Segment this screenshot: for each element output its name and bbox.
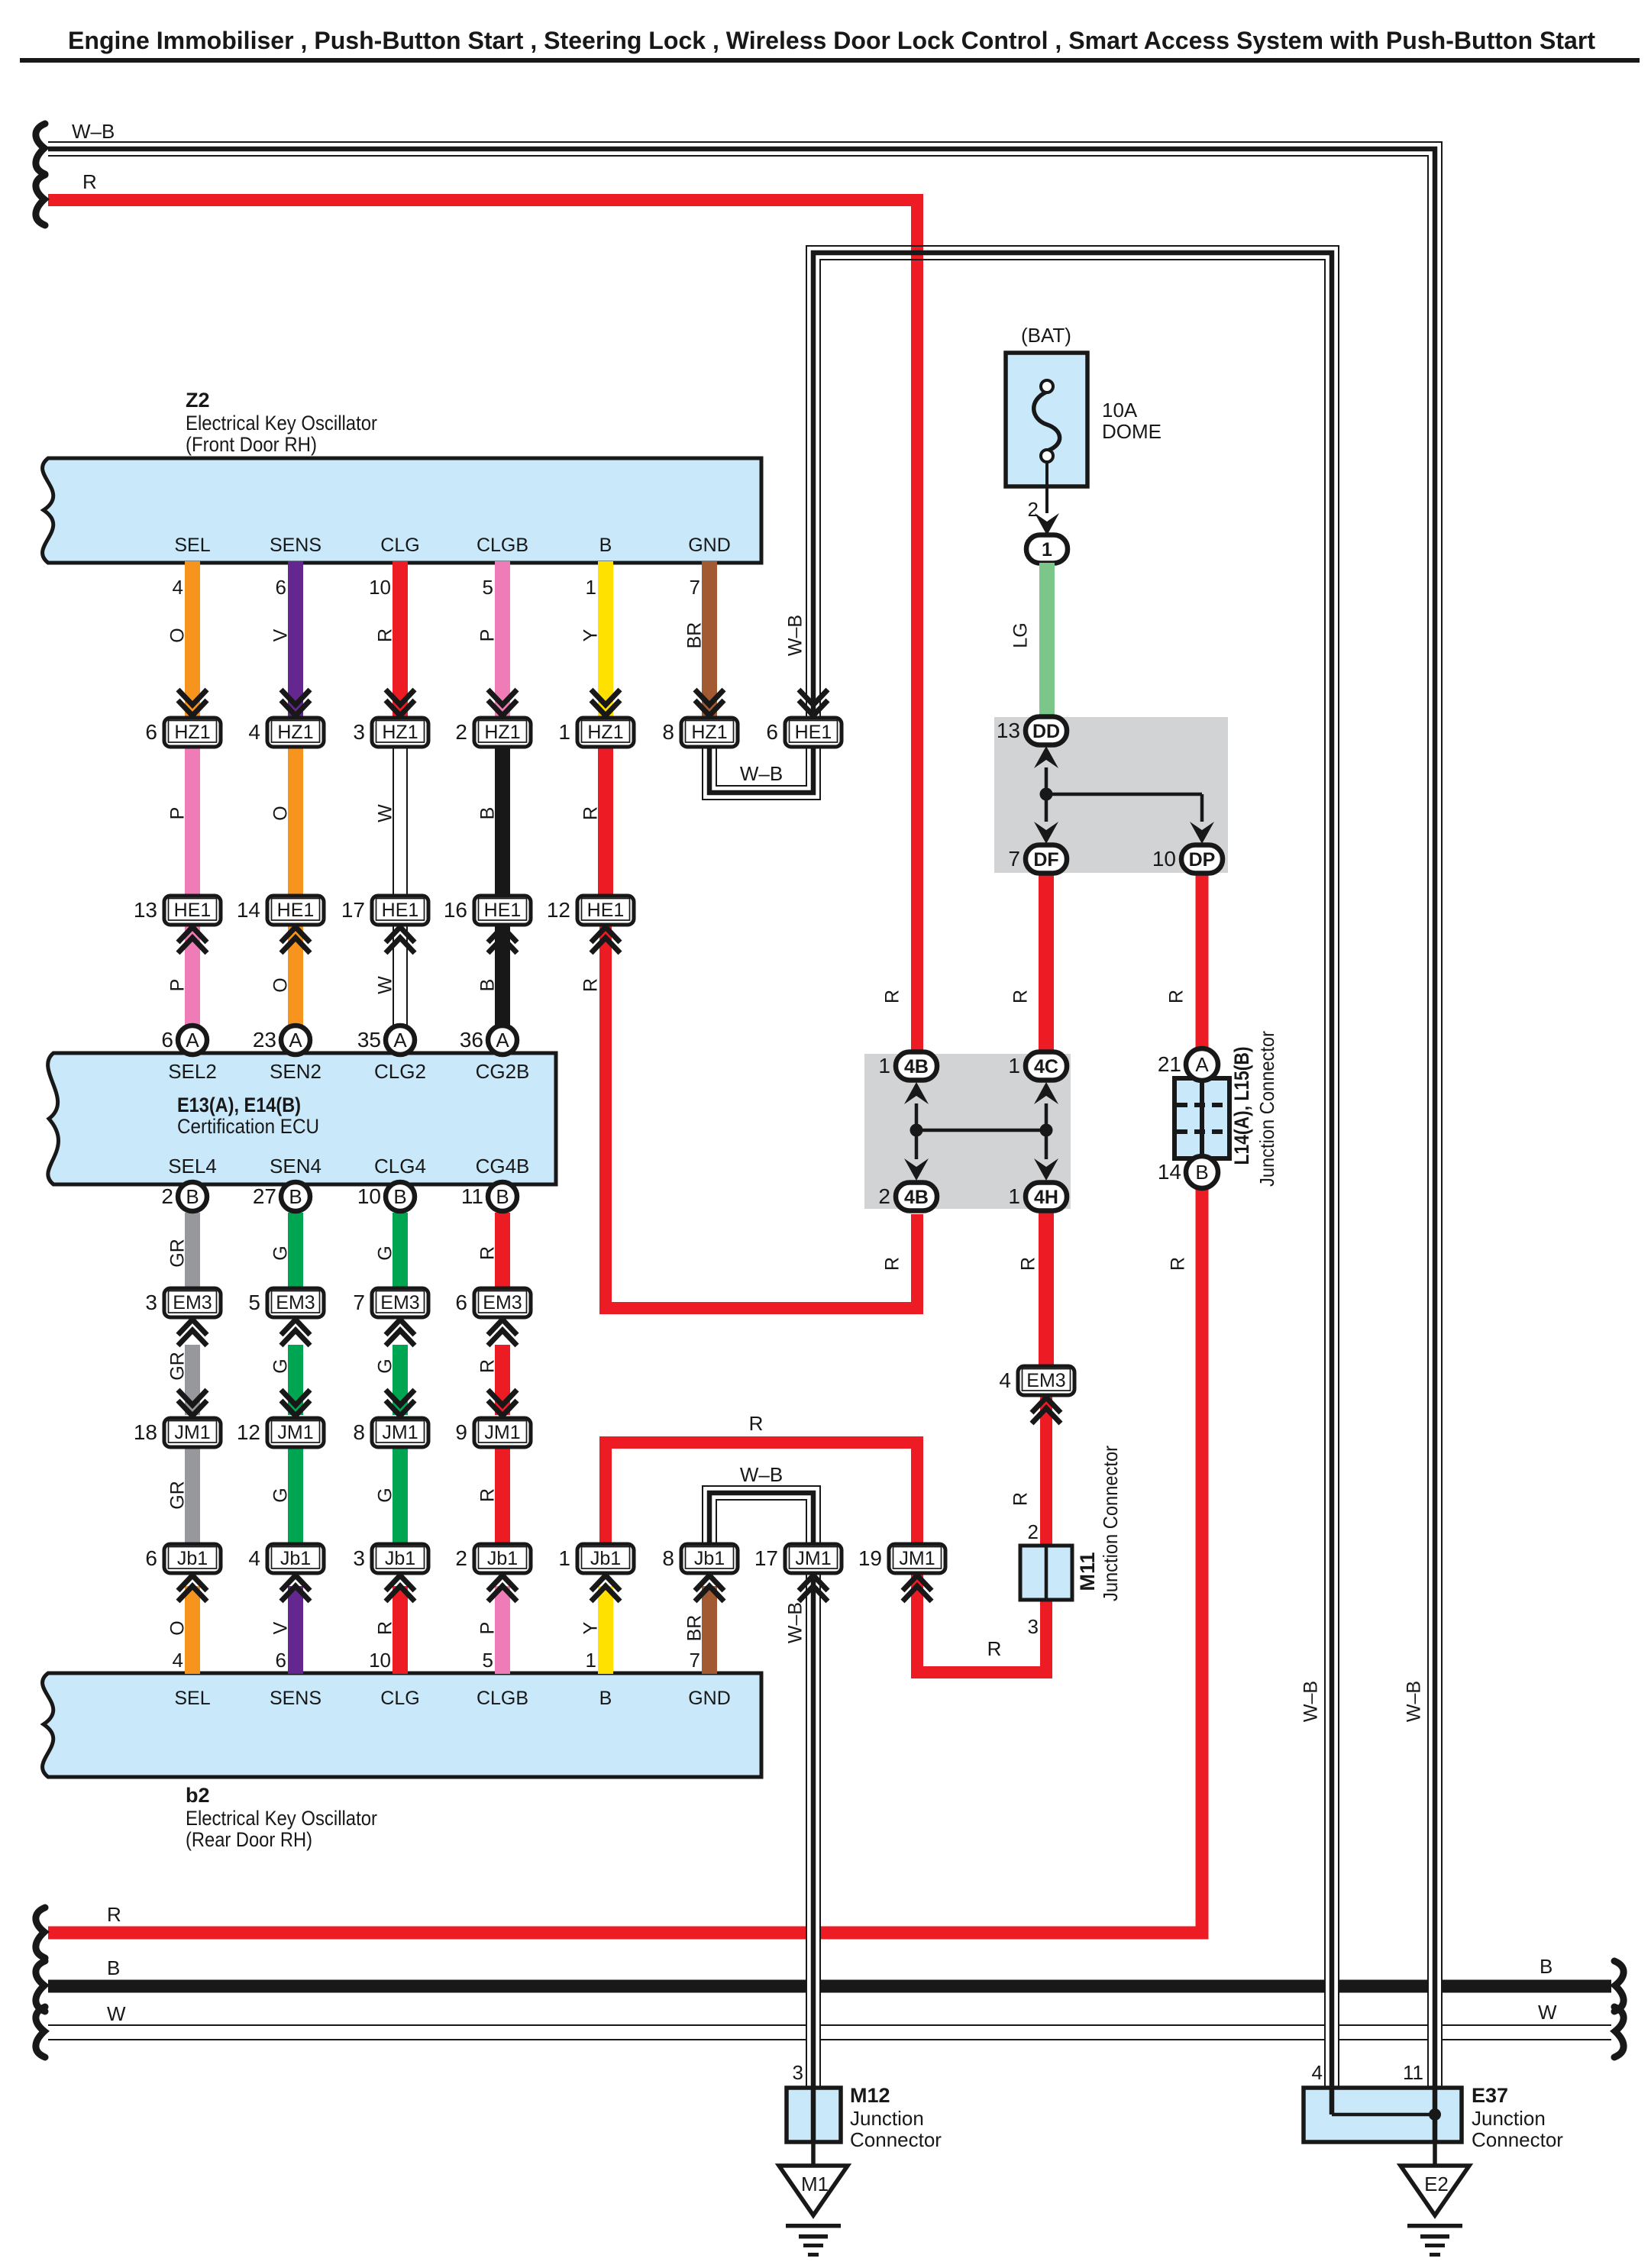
wire V from Jb1 to b2 SENS <box>288 1586 303 1674</box>
wire G from JM1 to Jb1 <box>393 1447 408 1543</box>
svg-text:4: 4 <box>1312 2061 1323 2084</box>
svg-text:4: 4 <box>173 1649 183 1672</box>
wire Y from Z2 B to HZ1 <box>598 561 613 716</box>
svg-text:6: 6 <box>455 1291 467 1314</box>
svg-text:CLG2: CLG2 <box>374 1060 426 1083</box>
wire R from Jb1 pin 1 to JM1 pin 19 <box>606 1443 917 1544</box>
connector Jb1 pin 1 <box>558 1544 634 1573</box>
svg-text:W–B: W–B <box>740 762 783 785</box>
svg-text:LG: LG <box>1010 622 1032 648</box>
svg-text:1: 1 <box>586 576 596 599</box>
svg-text:B: B <box>186 1185 199 1208</box>
wire O from HZ1 to HE1 <box>288 747 303 894</box>
arrow into 4B lower <box>904 1158 929 1181</box>
svg-text:B: B <box>393 1185 406 1208</box>
svg-text:SEL4: SEL4 <box>168 1155 217 1178</box>
wire BR from Jb1 to b2 GND <box>702 1586 717 1674</box>
svg-text:E13(A), E14(B): E13(A), E14(B) <box>177 1094 301 1116</box>
svg-text:13: 13 <box>134 898 157 922</box>
connector Jb1 pin 4 <box>248 1544 324 1573</box>
wire R from 4H to EM3 pin 4 <box>1039 1209 1054 1371</box>
svg-text:1: 1 <box>558 720 570 744</box>
svg-text:R: R <box>882 990 903 1003</box>
svg-text:CLGB: CLGB <box>477 1688 528 1709</box>
connector 1 oval <box>1026 535 1068 564</box>
wire G from ECU to EM3 <box>393 1213 408 1291</box>
svg-text:HE1: HE1 <box>382 900 419 921</box>
svg-text:2: 2 <box>455 1546 467 1570</box>
wire W from HE1 to ECU pin <box>393 925 407 1026</box>
svg-text:7: 7 <box>690 576 700 599</box>
svg-text:Junction: Junction <box>1472 2107 1546 2130</box>
svg-text:A: A <box>186 1029 199 1052</box>
svg-text:6: 6 <box>145 720 157 744</box>
svg-text:6: 6 <box>766 720 778 744</box>
svg-text:27: 27 <box>253 1184 276 1208</box>
svg-text:11: 11 <box>1403 2061 1423 2084</box>
wire B from HE1 to ECU pin <box>495 925 510 1026</box>
svg-text:R: R <box>477 1246 499 1260</box>
svg-text:CLG: CLG <box>380 1688 419 1709</box>
ECU pin 23 circle A <box>253 1026 310 1055</box>
svg-text:Junction: Junction <box>850 2107 924 2130</box>
svg-text:EM3: EM3 <box>173 1292 212 1313</box>
connector DD <box>997 717 1067 745</box>
connector EM3 pin 6 <box>455 1288 531 1317</box>
wire R from 4B to HE1 pin 12 column <box>606 925 917 1308</box>
svg-text:1: 1 <box>1008 1184 1020 1208</box>
svg-text:JM1: JM1 <box>795 1548 831 1569</box>
svg-text:2: 2 <box>161 1184 173 1208</box>
svg-text:10A: 10A <box>1102 399 1138 422</box>
svg-text:CLGB: CLGB <box>477 535 528 556</box>
svg-text:3: 3 <box>793 2061 803 2084</box>
svg-text:4: 4 <box>248 1546 260 1570</box>
shaded relay block DD/DF/DP <box>994 717 1228 873</box>
arrow into connector 1 <box>1035 513 1059 535</box>
svg-text:EM3: EM3 <box>1026 1370 1065 1391</box>
svg-text:6: 6 <box>276 1649 286 1672</box>
svg-text:A: A <box>393 1029 407 1052</box>
arrow into DF <box>1034 822 1058 844</box>
svg-text:Jb1: Jb1 <box>487 1548 518 1569</box>
svg-text:HZ1: HZ1 <box>382 722 418 743</box>
fuse element symbol <box>1034 392 1060 451</box>
svg-text:6: 6 <box>276 576 286 599</box>
svg-text:L14(A), L15(B): L14(A), L15(B) <box>1230 1047 1253 1165</box>
svg-text:B: B <box>1195 1161 1208 1184</box>
svg-text:V: V <box>270 1621 292 1634</box>
svg-text:5: 5 <box>483 576 493 599</box>
svg-text:4: 4 <box>248 720 260 744</box>
svg-text:R: R <box>375 628 396 642</box>
svg-text:HE1: HE1 <box>587 900 625 921</box>
svg-text:8: 8 <box>353 1420 365 1444</box>
svg-text:7: 7 <box>690 1649 700 1672</box>
connector HE1 pin 16 <box>444 896 531 925</box>
svg-text:E2: E2 <box>1424 2173 1449 2195</box>
connector JM1 pin 19 <box>858 1544 945 1573</box>
svg-text:W–B: W–B <box>1404 1681 1425 1722</box>
svg-text:(BAT): (BAT) <box>1021 324 1071 347</box>
svg-text:Engine Immobiliser , Push-Butt: Engine Immobiliser , Push-Button Start ,… <box>68 27 1595 54</box>
svg-text:R: R <box>987 1637 1002 1660</box>
connector HE1 pin 17 <box>341 896 428 925</box>
svg-text:R: R <box>882 1257 903 1271</box>
svg-text:W–B: W–B <box>1300 1681 1322 1722</box>
wire R main feed from page left to connector 4B <box>48 200 917 1061</box>
svg-text:R: R <box>82 170 97 193</box>
connector Jb1 pin 6 <box>145 1544 221 1573</box>
svg-text:JM1: JM1 <box>382 1422 418 1443</box>
connector 4H <box>1008 1183 1067 1211</box>
svg-text:Certification ECU: Certification ECU <box>177 1115 319 1138</box>
svg-text:CLG4: CLG4 <box>374 1155 426 1178</box>
svg-text:b2: b2 <box>186 1784 210 1807</box>
wire W-B second rail: HE1 pin 6 up, across, down to E37 pin 4 <box>806 246 1339 1924</box>
wire O from Jb1 to b2 SEL <box>185 1586 200 1674</box>
wire R from Z2 CLG to HZ1 <box>393 561 408 716</box>
svg-text:SEN4: SEN4 <box>270 1155 321 1178</box>
svg-text:W: W <box>1538 2001 1557 2024</box>
svg-text:7: 7 <box>1008 847 1020 871</box>
svg-text:10: 10 <box>1152 847 1176 871</box>
internal wires 4B/4C to 4B/4H <box>915 1103 919 1159</box>
svg-text:G: G <box>270 1245 292 1260</box>
svg-text:M1: M1 <box>801 2173 829 2195</box>
connector HZ1 pin 4 <box>281 690 310 716</box>
connector EM3 pin 3 <box>145 1288 221 1317</box>
wire M12 to ground M1 <box>811 2142 816 2167</box>
svg-text:18: 18 <box>134 1420 157 1444</box>
ECU pin 36 circle A <box>460 1026 517 1055</box>
wire O from HE1 to ECU pin <box>288 925 303 1026</box>
connector HE1 pin 12 <box>547 896 634 925</box>
wire P from HE1 to ECU pin <box>185 925 200 1026</box>
wire GR from ECU to EM3 <box>185 1213 200 1291</box>
svg-text:10: 10 <box>357 1184 381 1208</box>
wire G from ECU to EM3 <box>288 1213 303 1291</box>
svg-text:3: 3 <box>353 720 365 744</box>
svg-text:5: 5 <box>248 1291 260 1314</box>
svg-text:HE1: HE1 <box>484 900 522 921</box>
connector JM1 pin 18 <box>178 1390 207 1416</box>
wire W-B from JM1 pin 17 down to M12 <box>806 1572 821 2088</box>
connector HZ1 pin 6 <box>178 690 207 716</box>
connector HZ1 pin 3 <box>386 690 415 716</box>
svg-text:(Rear Door RH): (Rear Door RH) <box>186 1828 312 1851</box>
svg-text:B: B <box>496 1185 509 1208</box>
connector Jb1 pin 3 <box>353 1544 428 1573</box>
wire P from HZ1 to HE1 <box>185 747 200 894</box>
svg-text:B: B <box>1540 1955 1552 1978</box>
wire GR from EM3 to JM1 <box>185 1345 200 1415</box>
wire W-B loop Jb1 pin 8 to JM1 pin 17 <box>703 1486 820 1544</box>
oscillator Z2 box <box>43 458 761 563</box>
svg-text:(Front Door RH): (Front Door RH) <box>186 433 317 456</box>
svg-text:Connector: Connector <box>850 2128 942 2151</box>
svg-text:R: R <box>580 806 602 820</box>
connector HE1 pin 13 <box>134 896 221 925</box>
svg-text:BR: BR <box>684 622 706 649</box>
svg-text:M12: M12 <box>850 2084 890 2107</box>
svg-text:HZ1: HZ1 <box>484 722 520 743</box>
connector Jb1 pin 2 <box>455 1544 531 1573</box>
svg-text:HE1: HE1 <box>795 722 832 743</box>
svg-text:HZ1: HZ1 <box>691 722 727 743</box>
svg-text:HZ1: HZ1 <box>174 722 210 743</box>
connector HZ1 pin 1 <box>591 690 620 716</box>
internal wire DD to DF/DP <box>1045 767 1048 822</box>
ECU pin 6 circle A <box>161 1026 207 1055</box>
svg-text:R: R <box>1010 1492 1032 1506</box>
svg-text:W–B: W–B <box>740 1463 783 1486</box>
svg-text:1: 1 <box>878 1054 890 1077</box>
svg-text:P: P <box>477 629 499 642</box>
svg-text:O: O <box>167 1620 189 1635</box>
page-continuation braces <box>36 124 45 174</box>
connector HE1 pin 14 <box>237 896 324 925</box>
svg-text:B: B <box>477 979 499 992</box>
junction connector M12 box <box>787 2088 841 2142</box>
connector EM3 pin 7 <box>353 1288 428 1317</box>
svg-text:8: 8 <box>662 1546 674 1570</box>
svg-text:17: 17 <box>341 898 365 922</box>
connector JM1 pin 12 <box>281 1390 310 1416</box>
certification ECU E13/E14 box <box>48 1053 556 1184</box>
svg-text:8: 8 <box>662 720 674 744</box>
svg-text:R: R <box>1166 990 1187 1003</box>
svg-text:12: 12 <box>547 898 570 922</box>
svg-text:7: 7 <box>353 1291 365 1314</box>
connector JM1 pin 9 <box>488 1390 517 1416</box>
wire R from JM1 to Jb1 <box>495 1447 510 1543</box>
svg-text:GR: GR <box>167 1352 189 1381</box>
svg-text:GND: GND <box>688 535 731 556</box>
svg-text:GR: GR <box>167 1481 189 1510</box>
connector HE1 pin 6 <box>799 690 828 716</box>
svg-text:M11: M11 <box>1076 1552 1099 1591</box>
svg-text:23: 23 <box>253 1028 276 1052</box>
svg-text:DD: DD <box>1032 721 1060 742</box>
svg-text:9: 9 <box>455 1420 467 1444</box>
wire LG from fuse connector to DD <box>1039 563 1055 724</box>
svg-text:JM1: JM1 <box>174 1422 210 1443</box>
svg-text:R: R <box>580 978 602 992</box>
svg-text:Y: Y <box>580 1621 602 1634</box>
svg-text:Jb1: Jb1 <box>280 1548 311 1569</box>
svg-text:Jb1: Jb1 <box>177 1548 208 1569</box>
wire R from Jb1 to b2 CLG <box>393 1586 408 1674</box>
svg-text:B: B <box>599 535 612 556</box>
svg-text:W: W <box>107 2002 126 2025</box>
svg-text:E37: E37 <box>1472 2084 1508 2107</box>
wire P from Jb1 to b2 CLGB <box>495 1586 510 1674</box>
svg-text:Electrical Key Oscillator: Electrical Key Oscillator <box>186 412 377 435</box>
svg-text:13: 13 <box>997 719 1020 742</box>
wire B from HZ1 to HE1 <box>495 747 510 894</box>
svg-text:CG2B: CG2B <box>476 1060 530 1083</box>
svg-text:R: R <box>749 1412 764 1435</box>
svg-text:SEL2: SEL2 <box>168 1060 217 1083</box>
svg-text:A: A <box>496 1029 509 1052</box>
wire W-B top rail to E37 pin 11 <box>48 142 1442 1924</box>
wire G from EM3 to JM1 <box>393 1345 408 1415</box>
connector JM1 pin 8 <box>386 1390 415 1416</box>
svg-text:W: W <box>375 804 396 822</box>
svg-text:1: 1 <box>586 1649 596 1672</box>
svg-text:B: B <box>477 807 499 820</box>
svg-text:Electrical Key Oscillator: Electrical Key Oscillator <box>186 1807 377 1830</box>
svg-text:EM3: EM3 <box>276 1292 315 1313</box>
svg-text:SEL: SEL <box>174 1688 210 1709</box>
svg-text:4B: 4B <box>904 1056 929 1077</box>
svg-text:DF: DF <box>1033 849 1058 871</box>
wire G from JM1 to Jb1 <box>288 1447 303 1543</box>
connector JM1 pin 17 <box>754 1544 842 1573</box>
wire G from EM3 to JM1 <box>288 1345 303 1415</box>
ECU pin 2 circle B <box>161 1182 207 1211</box>
svg-text:JM1: JM1 <box>484 1422 520 1443</box>
wire P from Z2 CLGB to HZ1 <box>495 561 510 716</box>
svg-text:4H: 4H <box>1034 1187 1058 1208</box>
svg-text:W–B: W–B <box>785 1602 806 1643</box>
svg-text:10: 10 <box>369 576 391 599</box>
wire W bottom rail <box>48 2024 1611 2026</box>
svg-text:19: 19 <box>858 1546 882 1570</box>
wire Y from Jb1 to b2 B <box>598 1586 613 1674</box>
ground M1 <box>779 2166 848 2257</box>
svg-text:SEN2: SEN2 <box>270 1060 321 1083</box>
svg-text:P: P <box>167 979 189 992</box>
svg-text:3: 3 <box>353 1546 365 1570</box>
svg-text:Y: Y <box>580 628 602 641</box>
wire V from Z2 SENS to HZ1 <box>288 561 303 716</box>
shaded relay block 4B/4C/4H <box>864 1054 1071 1209</box>
svg-text:35: 35 <box>357 1028 381 1052</box>
connector DP <box>1152 845 1223 874</box>
svg-text:G: G <box>375 1488 396 1502</box>
ECU pin 10 circle B <box>357 1182 415 1211</box>
svg-text:4B: 4B <box>904 1187 929 1208</box>
fuse DOME box <box>1006 353 1087 486</box>
svg-text:1: 1 <box>1008 1054 1020 1077</box>
wire BR from Z2 GND to HZ1 <box>702 561 717 716</box>
svg-text:B: B <box>107 1956 120 1979</box>
connector 4B upper <box>878 1052 937 1081</box>
connector 4C <box>1008 1052 1067 1081</box>
wire R from HZ1 to HE1 <box>598 747 613 894</box>
svg-text:2: 2 <box>1028 1520 1039 1543</box>
wire R from DF to 4C <box>1039 873 1054 1063</box>
svg-text:DP: DP <box>1189 849 1216 871</box>
svg-text:4: 4 <box>173 576 183 599</box>
svg-text:A: A <box>1195 1053 1209 1076</box>
svg-text:R: R <box>107 1903 121 1926</box>
svg-text:EM3: EM3 <box>380 1292 419 1313</box>
wire GR from JM1 to Jb1 <box>185 1447 200 1543</box>
wire B bottom rail <box>48 1980 1611 1993</box>
svg-text:21: 21 <box>1158 1052 1181 1076</box>
svg-text:6: 6 <box>145 1546 157 1570</box>
svg-text:G: G <box>375 1245 396 1260</box>
wire E37 to ground E2 <box>1433 2142 1437 2167</box>
svg-text:EM3: EM3 <box>483 1292 522 1313</box>
svg-text:10: 10 <box>369 1649 391 1672</box>
junction connector E37 box <box>1304 2088 1462 2142</box>
svg-text:GR: GR <box>167 1239 189 1268</box>
svg-text:2: 2 <box>455 720 467 744</box>
ground E2 <box>1401 2166 1469 2257</box>
svg-text:3: 3 <box>145 1291 157 1314</box>
svg-text:HE1: HE1 <box>277 900 315 921</box>
svg-text:G: G <box>375 1359 396 1373</box>
arrow into 4B upper <box>904 1082 929 1104</box>
svg-text:Z2: Z2 <box>186 389 210 412</box>
connector EM3 pin 4 <box>999 1366 1074 1395</box>
svg-text:B: B <box>599 1688 612 1709</box>
arrow into DD <box>1034 746 1058 768</box>
svg-text:Junction Connector: Junction Connector <box>1099 1446 1122 1601</box>
svg-text:DOME: DOME <box>1102 420 1162 443</box>
svg-text:5: 5 <box>483 1649 493 1672</box>
svg-text:R: R <box>477 1359 499 1373</box>
svg-text:O: O <box>270 806 292 820</box>
wire R from JM1 pin 19 through M11 to EM3 pin 4 <box>917 1392 1046 1672</box>
svg-text:BR: BR <box>684 1615 706 1642</box>
svg-text:JM1: JM1 <box>899 1548 935 1569</box>
svg-text:HZ1: HZ1 <box>587 722 623 743</box>
svg-text:3: 3 <box>1028 1615 1039 1638</box>
svg-text:W–B: W–B <box>72 120 115 143</box>
oscillator b2 box <box>43 1673 761 1777</box>
junction connector M11 box <box>1020 1546 1072 1600</box>
svg-text:JM1: JM1 <box>277 1422 313 1443</box>
svg-text:4C: 4C <box>1034 1056 1058 1077</box>
ECU pin 11 circle B <box>461 1182 517 1211</box>
junction connector L14(A) L15(B) box <box>1174 1078 1229 1158</box>
svg-text:Jb1: Jb1 <box>590 1548 621 1569</box>
wire from fuse to connector 1 <box>1045 462 1048 513</box>
svg-text:SENS: SENS <box>270 535 321 556</box>
wire O from Z2 SEL to HZ1 <box>185 561 200 716</box>
svg-text:Junction Connector: Junction Connector <box>1255 1031 1278 1187</box>
wire R from ECU to EM3 <box>495 1213 510 1291</box>
svg-text:14: 14 <box>237 898 260 922</box>
svg-text:O: O <box>167 628 189 642</box>
W-B verticals crossing bottom rails (white keep-out) <box>1427 1924 1443 2088</box>
svg-text:V: V <box>270 628 292 641</box>
svg-text:O: O <box>270 977 292 992</box>
svg-text:GND: GND <box>688 1688 731 1709</box>
svg-text:CLG: CLG <box>380 535 419 556</box>
svg-text:2: 2 <box>1028 498 1039 521</box>
connector HZ1 pin 8 <box>695 690 724 716</box>
connector A of L14 <box>1158 1048 1218 1081</box>
svg-text:Connector: Connector <box>1472 2128 1563 2151</box>
svg-text:14: 14 <box>1158 1160 1181 1184</box>
svg-text:R: R <box>1168 1257 1189 1271</box>
svg-text:CG4B: CG4B <box>476 1155 530 1178</box>
svg-text:1: 1 <box>558 1546 570 1570</box>
svg-text:Jb1: Jb1 <box>385 1548 415 1569</box>
svg-text:A: A <box>289 1029 302 1052</box>
svg-text:B: B <box>289 1185 302 1208</box>
svg-text:16: 16 <box>444 898 467 922</box>
svg-text:R: R <box>375 1621 396 1635</box>
wire W-B loop HZ1 pin 8 to HE1 pin 6 <box>703 745 820 800</box>
svg-text:HE1: HE1 <box>174 900 212 921</box>
